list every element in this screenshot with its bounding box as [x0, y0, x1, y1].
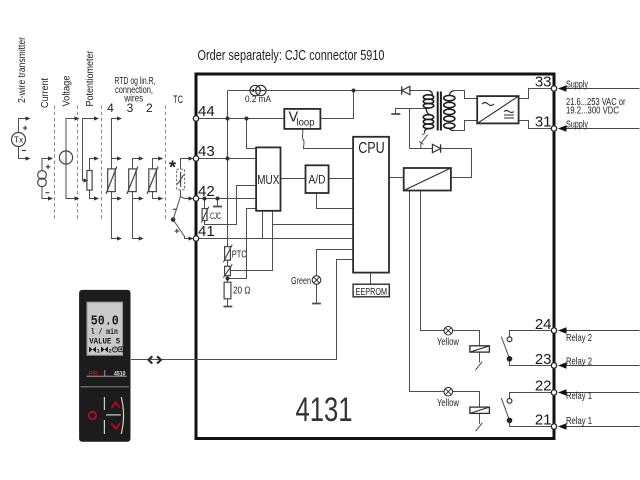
svg-text:Voltage: Voltage — [61, 75, 73, 106]
svg-text:33: 33 — [535, 74, 552, 91]
svg-text:22: 22 — [535, 378, 552, 395]
svg-text:41: 41 — [198, 223, 215, 240]
svg-text:24: 24 — [535, 316, 552, 333]
svg-text:Supply: Supply — [566, 120, 588, 131]
svg-text:42: 42 — [198, 183, 215, 200]
svg-text:31: 31 — [535, 114, 552, 131]
svg-text:4131: 4131 — [296, 391, 353, 429]
svg-text:20 Ω: 20 Ω — [233, 285, 251, 297]
svg-text:19.2...300 VDC: 19.2...300 VDC — [566, 106, 619, 117]
svg-text:Current: Current — [39, 78, 51, 108]
svg-text:3: 3 — [127, 101, 134, 115]
svg-text:Relay 1: Relay 1 — [566, 416, 592, 427]
svg-text:CPU: CPU — [358, 140, 385, 157]
svg-text:4: 4 — [107, 101, 114, 115]
svg-text:Tx: Tx — [14, 135, 24, 145]
svg-text:?: ? — [113, 348, 116, 354]
svg-text:VALUE 5: VALUE 5 — [89, 337, 120, 347]
svg-text:0.2 mA: 0.2 mA — [245, 94, 272, 105]
svg-text:2: 2 — [109, 348, 112, 355]
svg-text:Yellow: Yellow — [437, 337, 460, 348]
svg-text:Green: Green — [291, 276, 311, 287]
svg-text:EEPROM: EEPROM — [356, 286, 388, 298]
svg-text:CJC: CJC — [210, 211, 221, 222]
svg-text:Supply: Supply — [566, 80, 588, 91]
svg-text:44: 44 — [198, 103, 215, 120]
svg-text:Relay 1: Relay 1 — [566, 391, 592, 402]
svg-text:Yellow: Yellow — [437, 398, 460, 409]
svg-text:2-wire transmitter: 2-wire transmitter — [16, 37, 28, 103]
svg-text:MUX: MUX — [257, 173, 280, 187]
svg-text:23: 23 — [535, 351, 552, 368]
svg-text:Relay 2: Relay 2 — [566, 357, 592, 368]
svg-text:loop: loop — [297, 117, 315, 128]
svg-text:Relay 2: Relay 2 — [566, 333, 592, 344]
svg-text:21: 21 — [535, 412, 552, 429]
svg-text:Order separately: CJC connecto: Order separately: CJC connector 5910 — [198, 47, 385, 64]
svg-text:PTC: PTC — [232, 250, 247, 261]
svg-text:A/D: A/D — [309, 175, 326, 187]
svg-text:Potentiometer: Potentiometer — [84, 50, 96, 106]
svg-text:*: * — [169, 158, 176, 178]
svg-text:43: 43 — [198, 143, 215, 160]
svg-text:TC: TC — [173, 94, 183, 106]
svg-text:2: 2 — [146, 101, 153, 115]
